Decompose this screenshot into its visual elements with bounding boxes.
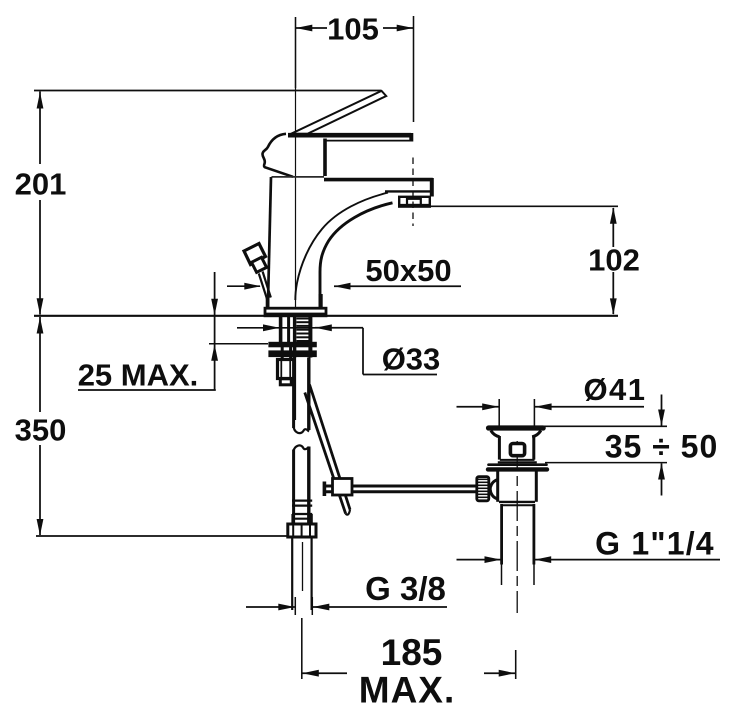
- faucet aerator bottom band: [400, 204, 430, 207]
- hose nut facet b: [301, 525, 303, 537]
- dimension g114 extension left: [501, 564, 503, 585]
- drain knob knurl 0: [478, 478, 488, 480]
- svg-text:MAX.: MAX.: [359, 670, 456, 711]
- dimension 50x50 arrow right: [334, 283, 351, 290]
- drain knob knurl 4: [478, 490, 488, 492]
- svg-text:50x50: 50x50: [365, 253, 451, 288]
- dimension d33 arrow right: [315, 324, 332, 331]
- shank pipe left edge: [293, 317, 296, 358]
- hose crimp line 1: [292, 500, 312, 502]
- pull rod housing left: [281, 342, 284, 360]
- pull rod housing right: [289, 342, 292, 360]
- dimension 201 arrow up: [37, 92, 44, 109]
- dimension 102 extension top: [430, 205, 618, 207]
- dimension g114 arrow right: [535, 556, 552, 563]
- svg-text:350: 350: [15, 413, 67, 448]
- pop-up rod diagonal a: [310, 385, 351, 510]
- dimension g38 extension right: [311, 597, 313, 615]
- dimension 350 line upper: [39, 317, 41, 412]
- shank thread 7: [296, 340, 308, 342]
- dimension 102 arrow down: [610, 298, 617, 315]
- hose upper left wall: [292, 358, 295, 429]
- dimension d33 line right: [315, 327, 363, 329]
- hose bottom centerline: [301, 618, 303, 650]
- linkage rod left cap: [323, 482, 327, 497]
- faucet spout top: [324, 178, 433, 182]
- drain top rim: [489, 425, 544, 430]
- dimension 102 line upper: [612, 208, 614, 247]
- faucet spout end face: [430, 178, 434, 197]
- dimension 201 line lower: [39, 200, 41, 315]
- dimension d33 arrow left: [263, 324, 280, 331]
- drain upper body left: [498, 436, 501, 460]
- dimension 185 line left: [302, 672, 347, 674]
- drain tail right wall: [533, 504, 536, 565]
- hose nut facet c: [309, 525, 311, 537]
- dimension g38 arrow right: [313, 604, 330, 611]
- hose lower left wall: [292, 450, 295, 525]
- hose tail left wall: [291, 537, 293, 610]
- shank thread 1: [296, 318, 308, 320]
- svg-text:35 ÷ 50: 35 ÷ 50: [605, 429, 719, 465]
- faucet base flange bottom band: [265, 313, 326, 317]
- drain centerline: [516, 441, 518, 613]
- shank washer: [268, 350, 316, 357]
- faucet drain pull knob: [244, 244, 266, 265]
- shank left edge: [279, 317, 283, 343]
- dimension 105 extension right: [413, 16, 415, 122]
- svg-text:102: 102: [588, 243, 640, 278]
- dimension 25max arrow down: [211, 299, 218, 316]
- hose crimp line 4: [292, 518, 312, 520]
- faucet handle cap profile: [263, 134, 294, 177]
- faucet spout inner curve: [295, 193, 388, 300]
- drain knob ball housing: [490, 480, 498, 500]
- drain lower body left: [496, 471, 499, 502]
- dimension d41 line left: [457, 406, 499, 408]
- dimension 185 extension left: [301, 650, 303, 679]
- faucet lever bar end: [409, 133, 413, 142]
- dimension d41 arrow left: [482, 403, 499, 410]
- dimension d41 extension left: [498, 399, 500, 426]
- faucet lever top bar: [288, 133, 411, 138]
- hose ferrule left wall: [291, 514, 293, 524]
- dimension d41 arrow right: [535, 403, 552, 410]
- faucet spout outer curve: [320, 203, 393, 307]
- faucet spout underside tip: [385, 190, 430, 192]
- faucet handle cap right edge: [323, 139, 327, 177]
- dimension 3550 lower leader: [661, 463, 663, 495]
- dimension g38 arrow left: [278, 604, 295, 611]
- dimension 185 arrow left: [302, 670, 319, 677]
- dimension g38 extension left: [294, 597, 296, 615]
- svg-text:25 MAX.: 25 MAX.: [78, 358, 199, 393]
- hose crimp line 3: [292, 513, 312, 515]
- dimension 50x50 line left: [227, 285, 260, 287]
- faucet centerline: [295, 88, 297, 420]
- svg-text:G 3/8: G 3/8: [365, 570, 446, 607]
- dimension 185 line right: [484, 672, 515, 674]
- dimension d33 leader drop: [362, 328, 364, 375]
- drain flange bottom: [488, 467, 547, 471]
- hose break lower curl: [294, 445, 309, 450]
- svg-text:Ø41: Ø41: [583, 372, 646, 407]
- hose ferrule right wall: [310, 514, 312, 524]
- deck line (mounting surface): [34, 315, 618, 317]
- dimension 201 line upper: [39, 92, 41, 165]
- drain lower body right: [535, 471, 538, 502]
- faucet drain pull rod upper a: [259, 274, 267, 300]
- pop-up rod diagonal b: [305, 393, 346, 514]
- pull rod nut: [278, 360, 295, 379]
- hose tail right wall: [311, 537, 313, 610]
- dimension d33 underline: [363, 374, 437, 376]
- dimension 105 line left: [296, 27, 327, 29]
- shank thread 6: [296, 336, 308, 338]
- hose nut facet a: [292, 525, 294, 537]
- dimension 3550 extension bottom: [545, 462, 667, 464]
- dimension 102 arrow up: [610, 207, 617, 224]
- shank thread 2: [296, 321, 308, 323]
- linkage horizontal rod top: [325, 485, 476, 488]
- shank thread 5: [296, 333, 308, 335]
- faucet spout tip centerline: [412, 158, 414, 227]
- drain knurled knob: [477, 477, 489, 501]
- pop-up rod end cap: [346, 510, 350, 515]
- shank backnut: [268, 342, 316, 348]
- dimension 350 arrow down: [37, 519, 44, 536]
- hose compression nut: [288, 524, 316, 537]
- bottom reference line (hose end level): [36, 535, 288, 537]
- drain knob knurl 5: [478, 493, 488, 495]
- drain tail left wall: [500, 504, 503, 565]
- faucet base flange: [265, 308, 326, 316]
- top reference line (handle tip level): [34, 90, 381, 92]
- dimension d41 extension right: [533, 399, 535, 426]
- shank pull-rod line: [287, 317, 290, 343]
- faucet drain pull rod upper b: [263, 272, 271, 298]
- svg-text:105: 105: [327, 12, 379, 47]
- dimension 3550 arrow down: [658, 410, 665, 427]
- deck underside line: [209, 343, 268, 345]
- drain collar line 2: [498, 461, 537, 463]
- faucet aerator inner: [407, 199, 421, 205]
- shank thread 4: [296, 329, 308, 331]
- pull rod nut facet b: [289, 360, 291, 378]
- dimension 102 line lower: [612, 272, 614, 314]
- drain flange top: [489, 463, 547, 466]
- drain square window: [510, 444, 524, 456]
- faucet body base right stub: [319, 294, 323, 309]
- shank right edge: [308, 317, 312, 358]
- shank thread 3: [296, 325, 308, 327]
- dimension 350 line lower: [39, 445, 41, 535]
- dimension 25max underline: [78, 389, 216, 391]
- dimension 105 arrow left: [296, 25, 313, 32]
- dimension g38 line right: [313, 606, 447, 608]
- drain body step line 2: [501, 504, 534, 506]
- dimension d33 line left: [237, 327, 315, 329]
- dimension 201 arrow down: [37, 298, 44, 315]
- hose upper right wall: [307, 358, 310, 431]
- faucet body shoulder: [272, 176, 325, 178]
- hose lower right wall: [307, 447, 310, 525]
- drain knob knurl 6: [478, 496, 488, 498]
- dimension 3550 arrow up: [658, 463, 665, 480]
- hose crimp line 2: [292, 505, 312, 507]
- dimension g38 line left: [246, 606, 295, 608]
- faucet lever bar bottom: [324, 140, 413, 142]
- dimension g114 line left: [457, 559, 502, 561]
- svg-text:G 1"1/4: G 1"1/4: [595, 526, 715, 562]
- dimension 185 extension right: [515, 650, 517, 679]
- faucet aerator: [399, 197, 430, 207]
- dimension 105 line right: [383, 27, 413, 29]
- dimension 185 arrow right: [499, 670, 516, 677]
- svg-text:185: 185: [381, 632, 443, 673]
- hose break upper curl: [294, 427, 309, 434]
- dimension g114 line right: [535, 559, 721, 561]
- dimension 25max arrow up: [211, 344, 218, 361]
- drain body step line 1: [499, 501, 535, 503]
- dimension 50x50 arrow left: [244, 283, 260, 290]
- svg-text:201: 201: [15, 167, 67, 202]
- dimension g114 arrow left: [485, 556, 502, 563]
- drain collar line 1: [500, 459, 535, 461]
- linkage horizontal rod bottom: [325, 490, 476, 493]
- dimension g114 extension right: [533, 564, 535, 585]
- drain upper body right: [532, 436, 535, 460]
- pull rod nut facet a: [280, 360, 282, 378]
- drain knob knurl 1: [478, 481, 488, 483]
- dimension 105 extension left: [295, 17, 297, 88]
- faucet lever (tilted): [291, 91, 386, 134]
- drain knob knurl 3: [478, 487, 488, 489]
- dimension 350 arrow up: [37, 317, 44, 334]
- faucet drain pull knob neck: [252, 257, 267, 272]
- dimension 3550 extension top: [543, 425, 667, 427]
- faucet body left edge: [268, 177, 271, 306]
- pull rod nut collar: [280, 379, 291, 385]
- drain flare right: [532, 431, 541, 437]
- drain flare left: [491, 431, 500, 437]
- hose tail centerline: [302, 542, 304, 591]
- dimension 3550 upper leader: [661, 395, 663, 426]
- linkage clamp block: [333, 479, 353, 496]
- dimension 105 arrow right: [397, 25, 414, 32]
- drain knob knurl 2: [478, 484, 488, 486]
- faucet body base left stub: [266, 295, 270, 309]
- dimension 25max leader: [214, 272, 216, 390]
- svg-text:Ø33: Ø33: [382, 342, 441, 377]
- dimension 50x50 line right: [334, 285, 461, 287]
- dimension d41 line right: [535, 406, 644, 408]
